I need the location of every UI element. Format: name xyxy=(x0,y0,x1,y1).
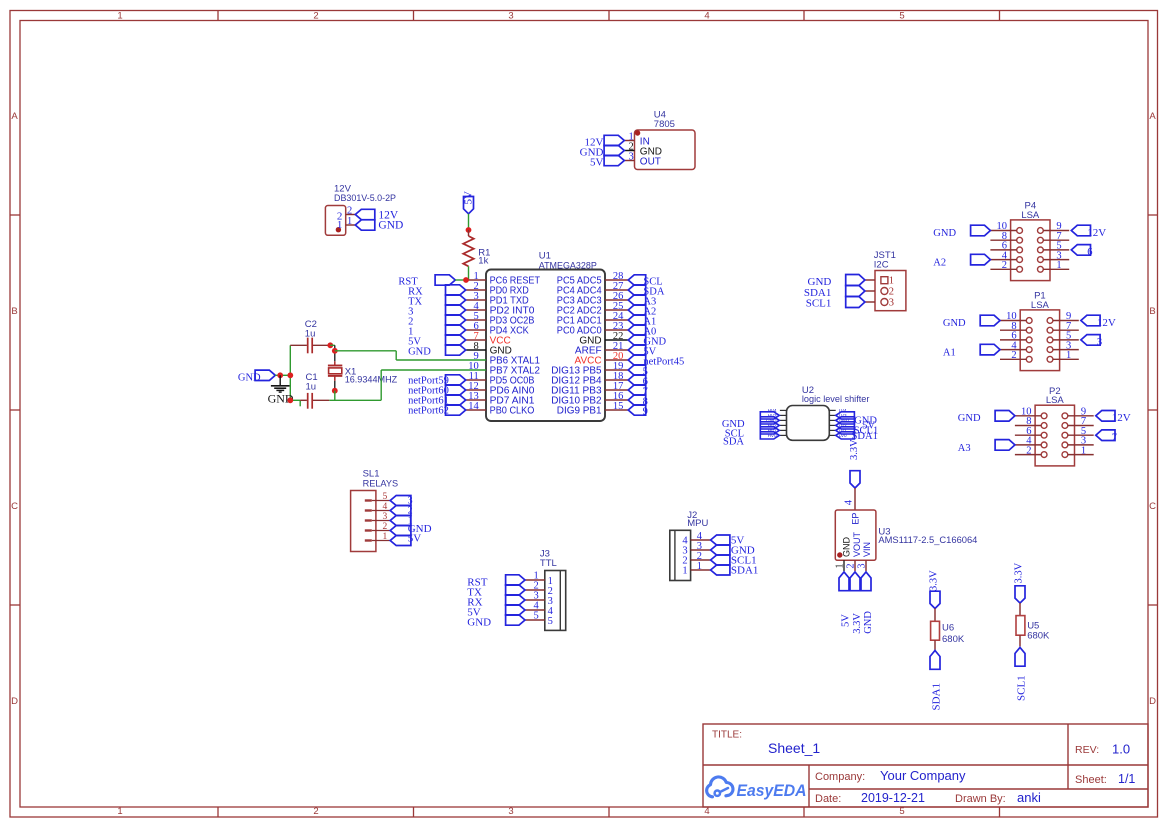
J2 pin 3 xyxy=(682,541,710,557)
U1 pin 20 AVCC xyxy=(575,351,629,367)
IC U4 7805 xyxy=(635,109,696,169)
svg-text:680K: 680K xyxy=(942,634,965,645)
U2 right pin LV4 xyxy=(829,408,847,413)
wire XTAL1 to U1 pin9 xyxy=(335,351,486,360)
svg-text:3: 3 xyxy=(1097,337,1102,348)
capacitor C1 1u xyxy=(290,372,329,409)
svg-text:9: 9 xyxy=(643,407,648,418)
svg-text:1: 1 xyxy=(337,219,343,231)
wire 3.3V to U6 xyxy=(934,608,936,621)
svg-text:1: 1 xyxy=(1081,445,1086,456)
IC U1 ATMEGA328P xyxy=(486,250,605,421)
svg-text:EP: EP xyxy=(850,513,860,525)
net flag at U2 right xyxy=(836,432,855,439)
U1 pin 12 PD6 AIN0 xyxy=(466,381,535,397)
svg-text:7: 7 xyxy=(1112,433,1117,444)
net flag RX at J3.3 xyxy=(467,595,525,609)
connector P2 LSA xyxy=(1035,386,1074,466)
P2 pin 5 wire xyxy=(1068,426,1094,437)
P1 pin 10 wire xyxy=(1000,311,1026,322)
net flag 3.3V above U6 xyxy=(929,570,941,609)
wire 5V to R1 xyxy=(468,214,470,230)
connector J3 TTL xyxy=(540,548,566,630)
P4 pin 5 wire xyxy=(1043,241,1069,252)
svg-text:logic level shifter: logic level shifter xyxy=(802,394,870,405)
svg-text:netPort45: netPort45 xyxy=(643,356,684,367)
svg-text:4: 4 xyxy=(844,499,855,505)
svg-text:GND: GND xyxy=(378,219,403,231)
svg-text:DB301V-5.0-2P: DB301V-5.0-2P xyxy=(334,193,396,204)
junction XTAL1 tap xyxy=(332,348,338,354)
net flag 5V at U3.1 xyxy=(839,572,852,627)
connector 12V DB301V-5.0-2P xyxy=(325,184,396,236)
J3 pin 3 xyxy=(525,590,553,607)
net flag 3 at U1.4 xyxy=(408,305,466,318)
wire U3 pin3 xyxy=(865,560,867,571)
net flag SCL1 at J2.2 xyxy=(711,555,757,567)
net flag GND at U4.2 xyxy=(604,145,624,155)
svg-text:C: C xyxy=(11,501,18,512)
svg-text:A: A xyxy=(11,111,18,122)
P2 pin 8 wire xyxy=(1015,416,1041,427)
svg-text:5V: 5V xyxy=(408,532,422,544)
U1 pin 6 PD4 XCK xyxy=(466,321,529,337)
P1 pin 6 wire xyxy=(1000,331,1026,342)
SL1 pin 3 xyxy=(365,512,390,522)
U1 pin 22 GND xyxy=(579,331,628,347)
svg-text:GND: GND xyxy=(408,346,431,357)
svg-text:Sheet_1: Sheet_1 xyxy=(768,740,820,756)
net flag at U2 right xyxy=(836,417,855,424)
P4 pin 4 wire xyxy=(990,250,1016,261)
svg-text:3.3V: 3.3V xyxy=(1014,562,1025,583)
svg-text:16.9344MHZ: 16.9344MHZ xyxy=(345,375,398,386)
U2 left pin HV3 xyxy=(768,413,787,418)
svg-text:1.0: 1.0 xyxy=(1112,742,1130,757)
P1 pin 5 wire xyxy=(1053,331,1079,342)
svg-text:7805: 7805 xyxy=(654,119,675,130)
svg-text:3.3V: 3.3V xyxy=(852,613,863,634)
connector SL1 RELAYS xyxy=(351,469,399,552)
junction xyxy=(287,372,293,378)
net flag GND at U1.8 xyxy=(408,345,466,358)
svg-text:5: 5 xyxy=(383,492,388,502)
net flag SDA1 below U6 xyxy=(930,651,943,711)
svg-text:1: 1 xyxy=(682,566,687,577)
net flag GND at JST1.1 xyxy=(808,275,865,288)
wire U3 pin2 xyxy=(854,560,856,571)
net flag at U2 left xyxy=(760,417,779,424)
connector JST1 I2C xyxy=(874,250,906,311)
junction xyxy=(277,372,283,378)
U2 left pin GND xyxy=(766,418,786,423)
svg-text:5: 5 xyxy=(548,616,553,627)
junction xyxy=(287,397,293,403)
frame column labels xyxy=(117,11,904,818)
U1 pin 16 DIG10 PB2 xyxy=(551,391,628,407)
U1 pin 15 DIG9 PB1 xyxy=(557,401,628,417)
svg-text:Drawn By:: Drawn By: xyxy=(955,793,1006,805)
U1 pin 25 PC2 ADC2 xyxy=(557,301,628,317)
svg-text:A2: A2 xyxy=(933,258,946,269)
svg-text:OUT: OUT xyxy=(640,156,661,167)
svg-text:5V: 5V xyxy=(463,191,475,205)
U1 pin 21 AREF xyxy=(575,341,628,357)
svg-text:3.3V: 3.3V xyxy=(849,439,860,460)
net flag GND at U3.3 xyxy=(861,572,874,634)
wire 3.3V to U5 xyxy=(1019,603,1021,616)
U1 pin 13 PD7 AIN1 xyxy=(466,391,535,407)
svg-text:GND: GND xyxy=(863,611,874,634)
svg-text:1: 1 xyxy=(835,564,846,569)
svg-text:4: 4 xyxy=(383,502,388,512)
net flag A3 at U1.26 xyxy=(628,295,656,308)
svg-text:680K: 680K xyxy=(1027,631,1050,642)
wire U6 to SDA1 xyxy=(934,640,936,651)
svg-text:2: 2 xyxy=(313,11,318,22)
net flag GND at J3.5 xyxy=(467,615,525,629)
svg-text:TITLE:: TITLE: xyxy=(712,730,742,741)
svg-text:Sheet:: Sheet: xyxy=(1075,774,1107,786)
P4 pin 2 wire xyxy=(990,260,1016,271)
svg-text:1: 1 xyxy=(117,11,122,22)
wire JST1 pin2 xyxy=(865,290,875,292)
connector P4 LSA xyxy=(1011,201,1050,281)
net flag GND xyxy=(355,220,375,230)
IC U2 logic level shifter xyxy=(787,385,870,441)
P4 pin 9 wire xyxy=(1043,221,1069,232)
J2 pin 2 xyxy=(682,551,710,567)
net flag GND at P4.10 xyxy=(933,225,990,239)
U1 pin 3 PD1 TXD xyxy=(466,291,529,307)
svg-text:Your Company: Your Company xyxy=(880,768,966,783)
U2 left pin HV0 xyxy=(768,433,787,438)
svg-text:D: D xyxy=(1149,696,1156,707)
net flag 12V at P1.9 xyxy=(1081,315,1116,329)
net flag SCL1 below U5 xyxy=(1015,647,1028,701)
J3 pin 4 xyxy=(525,600,554,617)
J3 pin 1 xyxy=(525,570,553,587)
wire U5 to SCL1 xyxy=(1019,635,1021,646)
SL1 pin 1 xyxy=(365,532,390,542)
svg-text:REV:: REV: xyxy=(1075,744,1099,756)
P4 pin 8 wire xyxy=(990,231,1016,242)
net flag GND at J2.3 xyxy=(711,545,755,557)
svg-text:3: 3 xyxy=(889,298,894,309)
P2 pin 9 wire xyxy=(1068,407,1094,418)
connector P1 LSA xyxy=(1020,291,1059,371)
svg-text:2: 2 xyxy=(313,806,318,817)
svg-text:1: 1 xyxy=(1056,260,1061,271)
svg-text:2019-12-21: 2019-12-21 xyxy=(861,791,925,805)
net flag 2 at U1.5 xyxy=(408,315,466,328)
net flag 6 at U1.18 xyxy=(628,375,648,388)
net flag SCL at U1.28 xyxy=(628,275,662,288)
wire U4 pin1 xyxy=(624,140,634,142)
SL1 pin 5 xyxy=(365,492,390,502)
svg-text:12V: 12V xyxy=(1097,317,1116,329)
frame row labels xyxy=(11,111,1156,707)
svg-text:GND: GND xyxy=(943,318,966,329)
junction xyxy=(466,227,472,233)
net flag RX at U1.2 xyxy=(408,285,466,298)
U1 pin 28 PC5 ADC5 xyxy=(557,271,628,287)
U1 pin 2 PD0 RXD xyxy=(466,281,529,297)
net flag 1 at U1.6 xyxy=(408,325,466,338)
svg-text:1: 1 xyxy=(117,806,122,817)
net flag 8 at U1.16 xyxy=(628,395,648,408)
svg-text:4: 4 xyxy=(704,806,709,817)
wire 12V conn pin1 xyxy=(346,224,356,226)
U2 right pin LV3 xyxy=(829,413,847,418)
svg-text:1: 1 xyxy=(347,216,352,227)
svg-text:SDA1: SDA1 xyxy=(731,565,759,577)
net flag 5V at U4.3 xyxy=(604,155,624,165)
wire U4 pin2 GND xyxy=(624,150,634,152)
net flag 3 at P1.5 xyxy=(1081,335,1102,349)
svg-text:3.3V: 3.3V xyxy=(929,570,940,591)
svg-text:2: 2 xyxy=(889,287,894,298)
connector J2 MPU xyxy=(670,510,709,581)
svg-text:B: B xyxy=(11,306,17,317)
capacitor C2 1u xyxy=(290,319,330,353)
U2 right pin LV2 xyxy=(829,423,847,428)
junction XTAL2 tap xyxy=(332,388,338,394)
net flag 5V at J3.4 xyxy=(467,605,525,619)
U1 pin 27 PC4 ADC4 xyxy=(557,281,628,297)
svg-text:1k: 1k xyxy=(478,256,488,267)
svg-text:C: C xyxy=(1149,501,1156,512)
svg-text:D: D xyxy=(11,696,18,707)
U1 pin 17 DIG11 PB3 xyxy=(551,381,628,397)
svg-text:MPU: MPU xyxy=(687,518,708,529)
net flag 3.3V above U5 xyxy=(1014,562,1026,603)
svg-text:SCL1: SCL1 xyxy=(806,297,832,309)
svg-text:EasyEDA: EasyEDA xyxy=(737,781,807,800)
svg-text:5: 5 xyxy=(534,610,539,621)
net flag 12V at U4.1 xyxy=(604,135,624,145)
P1 pin 9 wire xyxy=(1053,311,1079,322)
wire JST1 pin1 xyxy=(865,279,875,281)
net flag at U2 right xyxy=(836,412,855,419)
net flag SDA1 at JST1.2 xyxy=(804,286,865,300)
net flag 5 at U1.19 xyxy=(628,365,648,378)
junction C2-X1 xyxy=(327,342,333,348)
net flag A0 at U1.23 xyxy=(628,325,656,338)
net flag 3.3V at U3.2 xyxy=(850,572,863,634)
net flag GND left of crystal xyxy=(238,370,275,383)
svg-text:Company:: Company: xyxy=(815,771,865,783)
svg-text:1: 1 xyxy=(1066,350,1071,361)
net flag at U2 right xyxy=(836,427,855,434)
svg-text:2: 2 xyxy=(1026,445,1031,456)
svg-text:netPort62: netPort62 xyxy=(408,406,449,417)
net flag TX at J3.2 xyxy=(467,585,525,599)
svg-text:A: A xyxy=(1149,111,1156,122)
svg-text:Date:: Date: xyxy=(815,793,841,805)
wire U3 pin1 GND xyxy=(843,560,845,571)
resistor U6 680K xyxy=(931,621,965,645)
net flag 12V at P4.9 xyxy=(1071,225,1106,239)
svg-text:3: 3 xyxy=(508,806,513,817)
net flag at U2 left xyxy=(760,432,779,439)
P2 pin 6 wire xyxy=(1015,426,1041,437)
P2 pin 3 wire xyxy=(1068,436,1094,447)
svg-text:1u: 1u xyxy=(306,382,317,393)
SL1 pin 2 xyxy=(365,522,390,532)
net flag SDA1 at J2.1 xyxy=(711,565,759,577)
svg-text:GND: GND xyxy=(238,372,261,383)
svg-text:2: 2 xyxy=(347,205,352,216)
wire R1 to U1 pin1 xyxy=(468,266,470,280)
svg-text:2: 2 xyxy=(1011,350,1016,361)
svg-text:SCL1: SCL1 xyxy=(1016,675,1028,701)
net flag SDA at U1.27 xyxy=(628,285,665,298)
net flag SCL1 at JST1.3 xyxy=(806,297,865,310)
U1 pin 4 PD2 INT0 xyxy=(466,301,535,317)
P4 pin 6 wire xyxy=(990,241,1016,252)
svg-text:LSA: LSA xyxy=(1046,395,1065,406)
P2 pin 1 wire xyxy=(1068,445,1094,456)
svg-text:SDA1: SDA1 xyxy=(931,683,943,711)
P1 pin 1 wire xyxy=(1053,350,1079,361)
wire U4 pin3 xyxy=(624,160,634,162)
svg-text:U6: U6 xyxy=(942,623,954,634)
P1 pin 8 wire xyxy=(1000,321,1026,332)
net flag 3 at SL1.5 xyxy=(390,495,412,506)
net flag A3 at P2.4 xyxy=(958,440,1015,454)
svg-text:A1: A1 xyxy=(943,348,956,359)
P2 pin 2 wire xyxy=(1015,445,1041,456)
net flag netPort61 at U1.13 xyxy=(408,395,466,407)
wire 12V conn pin2 xyxy=(346,214,356,216)
crystal X1 16.9344MHZ xyxy=(328,361,397,385)
svg-text:anki: anki xyxy=(1017,790,1041,805)
U1 pin 5 PD3 OC2B xyxy=(466,311,535,327)
P1 pin 2 wire xyxy=(1000,350,1026,361)
U1 pin 19 DIG13 PB5 xyxy=(551,361,628,377)
net flag 7 at U1.17 xyxy=(628,385,648,398)
svg-text:3: 3 xyxy=(857,564,868,569)
svg-text:1: 1 xyxy=(383,532,388,542)
svg-text:I2C: I2C xyxy=(874,259,889,270)
wire X1 bottom xyxy=(334,381,336,391)
P1 pin 3 wire xyxy=(1053,340,1079,351)
J3 pin 2 xyxy=(525,580,553,597)
P2 pin 4 wire xyxy=(1015,436,1041,447)
net flag 5V at SL1.1 xyxy=(390,532,421,545)
svg-text:RELAYS: RELAYS xyxy=(363,478,399,489)
svg-text:5: 5 xyxy=(899,806,904,817)
U2 right pin LV1 xyxy=(829,428,847,433)
svg-text:A3: A3 xyxy=(958,443,971,454)
svg-text:B: B xyxy=(1149,306,1155,317)
wire XTAL2 to U1 pin10 xyxy=(329,370,486,400)
net flag GND at P1.10 xyxy=(943,315,1000,329)
net flag 7 at P2.5 xyxy=(1096,430,1117,444)
resistor U5 680K xyxy=(1016,616,1050,642)
net flag A2 at U1.25 xyxy=(628,305,656,318)
wire JST1 pin3 xyxy=(865,301,875,303)
net flag 5V above R1 xyxy=(463,191,475,214)
svg-text:PB0 CLKO: PB0 CLKO xyxy=(490,406,535,417)
net flag 5V at J2.4 xyxy=(711,535,745,547)
net flag GND at U1.22 xyxy=(628,335,666,348)
P2 pin 7 wire xyxy=(1068,416,1094,427)
U1 pin 14 PB0 CLKO xyxy=(466,401,535,417)
net flag A1 at U1.24 xyxy=(628,315,656,328)
J3 pin 5 xyxy=(525,610,553,627)
svg-text:14: 14 xyxy=(468,401,479,412)
U1 pin 18 DIG12 PB4 xyxy=(551,371,628,387)
svg-text:15: 15 xyxy=(613,401,624,412)
svg-text:GND: GND xyxy=(467,617,491,629)
svg-text:2: 2 xyxy=(846,564,857,569)
ground symbol xyxy=(268,375,294,405)
svg-text:6: 6 xyxy=(1087,247,1092,258)
net flag A1 at P1.4 xyxy=(943,344,1000,358)
wire C2 to X1 top xyxy=(330,345,335,361)
net flag RST at U1.1 xyxy=(398,275,455,288)
U1 pin 1 PC6 RESET xyxy=(466,271,540,287)
EasyEDA logo xyxy=(707,777,807,800)
net flag 12V at P2.9 xyxy=(1096,411,1131,425)
IC U3 AMS1117-2.5_C166064 xyxy=(835,510,977,560)
svg-text:3: 3 xyxy=(508,11,513,22)
P4 pin 10 wire xyxy=(990,221,1016,232)
svg-text:1: 1 xyxy=(889,276,894,287)
net flag at U2 right xyxy=(836,422,855,429)
svg-text:5V: 5V xyxy=(590,156,604,168)
svg-text:AMS1117-2.5_C166064: AMS1117-2.5_C166064 xyxy=(878,535,977,546)
svg-text:1: 1 xyxy=(697,561,702,572)
net flag netPort59 at U1.11 xyxy=(408,375,466,387)
J2 pin 1 xyxy=(682,561,710,577)
net flag at U2 left xyxy=(760,422,779,429)
U1 pin 26 PC3 ADC3 xyxy=(557,291,628,307)
svg-text:VIN: VIN xyxy=(862,542,872,557)
svg-text:3: 3 xyxy=(629,151,634,162)
P1 pin 4 wire xyxy=(1000,340,1026,351)
svg-text:LSA: LSA xyxy=(1031,300,1050,311)
svg-text:1/1: 1/1 xyxy=(1118,772,1135,786)
U2 right pin GND xyxy=(829,418,849,423)
svg-text:12V: 12V xyxy=(1112,412,1131,424)
net flag netPort60 at U1.12 xyxy=(408,385,466,397)
svg-text:VOUT: VOUT xyxy=(852,531,862,557)
net flag TX at U1.3 xyxy=(408,295,466,308)
U1 pin 24 PC1 ADC1 xyxy=(557,311,628,327)
U2 left pin HV2 xyxy=(768,423,787,428)
U1 pin 23 PC0 ADC0 xyxy=(557,321,628,337)
svg-text:3: 3 xyxy=(383,512,388,522)
P4 pin 7 wire xyxy=(1043,231,1069,242)
U2 right pin LV0 xyxy=(829,433,847,438)
resistor R1 1k xyxy=(463,230,490,267)
svg-text:GND: GND xyxy=(958,413,981,424)
svg-text:1u: 1u xyxy=(305,329,316,340)
svg-text:5: 5 xyxy=(899,11,904,22)
net flag netPort45 at U1.20 xyxy=(628,355,684,368)
net flag GND at SL1.2 xyxy=(390,523,431,536)
net flag 6 at P4.5 xyxy=(1071,245,1092,259)
net flag at U3 pin4 xyxy=(844,471,861,506)
wire U3 pin4 xyxy=(854,488,856,510)
svg-text:12V: 12V xyxy=(1087,227,1106,239)
title block xyxy=(703,724,1148,807)
net flag 1 at SL1.3 xyxy=(390,515,412,526)
net flag at U2 left xyxy=(760,412,779,419)
